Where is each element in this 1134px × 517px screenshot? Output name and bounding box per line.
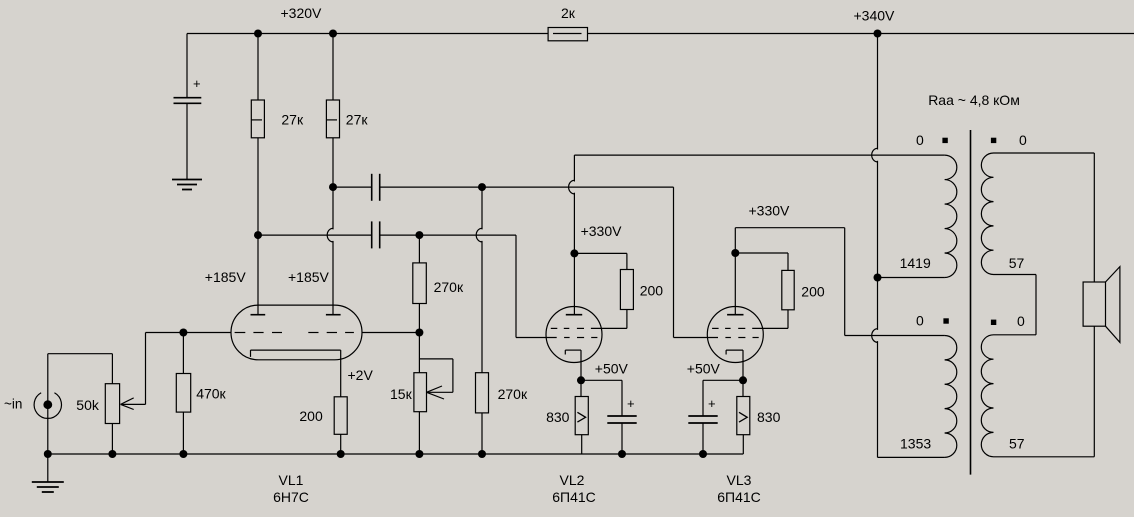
wire lower row left segment bbox=[258, 234, 372, 236]
junction dot rail VL3 cap bbox=[699, 450, 707, 458]
transformer T1 secondary winding 57 upper bbox=[981, 153, 993, 275]
svg-text:+340V: +340V bbox=[854, 8, 896, 24]
resistor 200 VL2 screen body bbox=[620, 270, 633, 310]
wire secondary series link bbox=[994, 274, 1037, 276]
junction dot rail 50k bbox=[108, 450, 116, 458]
wire hop 270k-leak over lower row bbox=[476, 228, 482, 242]
junction dot VL3 anode/screen node +330V bbox=[731, 249, 739, 257]
wire VL3 cathode cap link bbox=[703, 379, 743, 381]
svg-text:+330V: +330V bbox=[749, 203, 791, 219]
junction dot upper row / 270k grid leak bbox=[478, 183, 486, 191]
tube VL2 screen grid dashes bbox=[551, 327, 558, 329]
wire VL2 cap bottom lead bbox=[621, 423, 623, 454]
wire input down to rail bbox=[47, 405, 49, 454]
svg-text:+320V: +320V bbox=[281, 5, 323, 21]
transformer T1 primary winding 1353 bbox=[945, 336, 957, 458]
connector input jack circle bbox=[34, 393, 61, 419]
wire VL3 anode column bbox=[734, 228, 736, 315]
transformer phase dot secondary1 bbox=[992, 138, 996, 142]
wire primary2 bottom link bbox=[878, 456, 945, 458]
junction dot rail +340V bbox=[874, 30, 882, 38]
junction dot rail 270k-leak bbox=[478, 450, 486, 458]
wire input to pot top bbox=[48, 353, 113, 355]
transformer T1 primary winding 1419 bbox=[945, 155, 957, 277]
svg-text:~in: ~in bbox=[4, 397, 22, 412]
wire VL3 screen resistor top link bbox=[735, 252, 788, 254]
wire 15k wiper horizontal bbox=[427, 391, 453, 393]
tube VL2 control grid dashes bbox=[564, 337, 570, 339]
transformer phase dot primary2 bbox=[944, 319, 948, 323]
wire 470k bottom lead bbox=[182, 412, 184, 454]
potentiometer 50k wiper arrow bbox=[121, 398, 134, 405]
resistor 270k divider body bbox=[413, 263, 427, 304]
wire VL2 anode column above hop bbox=[573, 155, 575, 181]
tube VL1 grid-2 dashes bbox=[308, 332, 318, 334]
resistor 27k-2 body bbox=[326, 100, 339, 138]
tube VL3 control grid dashes bbox=[725, 337, 731, 339]
capacitor VL2 cathode plates bbox=[607, 415, 636, 417]
wire 15k bottom lead bbox=[418, 412, 420, 454]
wire 27k-1 top lead bbox=[257, 34, 259, 101]
svg-text:200: 200 bbox=[640, 283, 664, 299]
junction dot upper cap row left bbox=[329, 183, 337, 191]
wire 50k wiper vertical to grid bbox=[145, 333, 147, 405]
wire secondary2 bottom link bbox=[994, 456, 1095, 458]
wire input up lead bbox=[47, 354, 49, 405]
junction dot rail/27k-1 bbox=[254, 30, 262, 38]
svg-text:+50V: +50V bbox=[687, 361, 721, 377]
wire VL2 grid entry bbox=[516, 337, 557, 339]
capacitor coupling C2 plates bbox=[371, 221, 373, 248]
wire VL2 anode column below hop bbox=[573, 193, 575, 315]
wire 270k-leak bottom lead bbox=[481, 413, 483, 454]
wire hop anode2 over lower row bbox=[327, 228, 333, 242]
wire top +320V/+340V supply rail left segment bbox=[187, 33, 548, 35]
svg-text:0: 0 bbox=[1019, 132, 1027, 148]
speaker BA1 driver box bbox=[1083, 282, 1105, 326]
wire VL3 grid column vertical bbox=[673, 187, 675, 337]
wire VL3 cap bottom lead bbox=[702, 423, 704, 454]
junction dot VL1 grid right node B bbox=[415, 329, 423, 337]
junction dot VL1 grid left node A bbox=[179, 329, 187, 337]
svg-text:57: 57 bbox=[1009, 255, 1025, 271]
wire VL3 anode to transformer primary2 top bbox=[845, 335, 945, 337]
wire pot 50k top lead bbox=[111, 354, 113, 384]
svg-text:1419: 1419 bbox=[900, 255, 931, 271]
wire VL2 screen resistor top link bbox=[574, 252, 627, 254]
wire VL3 anode link top bbox=[735, 227, 844, 229]
wire top supply rail right segment bbox=[588, 33, 1134, 35]
tube VL1 envelope bbox=[231, 305, 362, 360]
wire 200 bottom lead bbox=[340, 434, 342, 454]
wire VL2 grid column vertical bbox=[515, 235, 517, 337]
resistor 470k grid leak top lead bbox=[182, 333, 184, 374]
wire 27k-2 top lead bbox=[332, 34, 334, 101]
wire center-tap column seg2 bbox=[877, 161, 879, 330]
wire primary1 bottom link bbox=[878, 277, 945, 279]
svg-text:VL3: VL3 bbox=[727, 472, 752, 488]
wire VL1 anode-1 plate bar bbox=[251, 314, 266, 316]
transformer T1 secondary winding 57 lower bbox=[981, 335, 993, 457]
resistor 200 VL3 screen body bbox=[782, 270, 794, 309]
resistor 200 VL1 cathode body bbox=[334, 397, 347, 435]
svg-text:6П41С: 6П41С bbox=[717, 489, 761, 505]
wire 270k-leak column upper bbox=[481, 187, 483, 229]
capacitor filter electrolytic plates bbox=[174, 97, 202, 99]
wire VL2 screen resistor bottom link bbox=[626, 310, 628, 329]
svg-text:470к: 470к bbox=[196, 386, 226, 402]
wire VL1 grid wire right solid bbox=[362, 332, 419, 334]
junction dot rail 15k bbox=[415, 450, 423, 458]
resistor 470k body bbox=[176, 374, 190, 413]
svg-text:VL2: VL2 bbox=[560, 472, 585, 488]
svg-text:57: 57 bbox=[1009, 436, 1025, 452]
wire VL1 anode-1 lead below node bbox=[257, 235, 259, 315]
junction dot VL2 cathode node +50V bbox=[577, 376, 585, 384]
wire 270k-div top lead bbox=[418, 235, 420, 263]
svg-text:27к: 27к bbox=[346, 112, 369, 128]
tube VL1 grid-1 dashes bbox=[235, 332, 246, 334]
potentiometer 15k body bbox=[414, 373, 427, 412]
wire 50k wiper horizontal bbox=[121, 403, 146, 405]
svg-text:+50V: +50V bbox=[595, 361, 629, 377]
tube VL1 cathode left tick bbox=[250, 350, 252, 357]
svg-text:6Н7С: 6Н7С bbox=[273, 489, 309, 505]
resistor 830 VL2 chevron bbox=[577, 412, 585, 422]
svg-text:+330V: +330V bbox=[581, 223, 623, 239]
resistor 830 VL2 body bbox=[575, 397, 588, 435]
wire grid node to 15k pot bbox=[418, 333, 420, 373]
tube VL3 anode plate bar bbox=[727, 314, 743, 316]
svg-text:VL1: VL1 bbox=[279, 472, 304, 488]
junction dot lower row / 270k divider bbox=[415, 231, 423, 239]
ground filter cap bbox=[172, 179, 202, 181]
wire VL2 anode to transformer primary top bbox=[574, 154, 944, 156]
svg-text:27к: 27к bbox=[281, 112, 304, 128]
capacitor VL3 cathode plates bbox=[688, 415, 717, 417]
svg-text:+2V: +2V bbox=[348, 367, 374, 383]
wire center-tap column seg1 bbox=[877, 34, 879, 150]
svg-text:0: 0 bbox=[916, 132, 924, 148]
wire hop CT over primary2 top bbox=[872, 329, 878, 343]
wire VL1 cathode lead bbox=[340, 350, 342, 397]
resistor 830 VL3 body bbox=[737, 397, 750, 435]
tube VL1 cathode bar bbox=[251, 349, 341, 351]
tube VL2 anode plate bar bbox=[566, 314, 582, 316]
wire VL3 cathode to 830 bbox=[742, 380, 744, 396]
wire upper row left segment bbox=[333, 186, 372, 188]
svg-text:+185V: +185V bbox=[205, 269, 247, 285]
wire 830 VL3 bottom lead bbox=[742, 435, 744, 454]
junction dot rail 200 bbox=[337, 450, 345, 458]
svg-text:830: 830 bbox=[546, 409, 570, 425]
transformer T1 core bbox=[970, 130, 972, 475]
wire secondary1 top link bbox=[994, 152, 1095, 154]
svg-text:+: + bbox=[708, 396, 716, 411]
wire 270k-leak column lower bbox=[481, 241, 483, 373]
wire filter cap top lead bbox=[186, 34, 188, 98]
wire VL3 grid entry bbox=[674, 337, 719, 339]
tube VL2 envelope circle bbox=[546, 307, 602, 363]
wire 830 VL2 bottom lead bbox=[581, 435, 583, 454]
wire 27k-1 bottom lead to node bbox=[257, 138, 259, 235]
wire 27k-2 column below hop bbox=[332, 241, 334, 315]
wire input ground lead bbox=[47, 454, 49, 482]
tube VL2 cathode bar bbox=[565, 349, 581, 351]
wire lower row right segment bbox=[380, 234, 516, 236]
svg-text:830: 830 bbox=[757, 409, 781, 425]
svg-text:+: + bbox=[193, 76, 201, 91]
wire upper row to VL3 grid column bbox=[380, 186, 674, 188]
wire VL1 anode-2 plate bar bbox=[326, 314, 341, 316]
wire 15k wiper link vertical bbox=[452, 359, 454, 392]
wire VL3 anode link vertical bbox=[844, 228, 846, 336]
wire 27k-2 bottom lead bbox=[332, 138, 334, 187]
junction dot rail VL2 cap bbox=[618, 450, 626, 458]
junction dot rail input bbox=[44, 450, 52, 458]
junction dot rail/27k-2 bbox=[329, 30, 337, 38]
wire pot 50k bottom lead bbox=[111, 424, 113, 455]
transformer phase dot primary1 bbox=[943, 138, 947, 142]
svg-text:270к: 270к bbox=[434, 279, 464, 295]
transformer phase dot secondary2 bbox=[992, 320, 996, 324]
svg-text:+185V: +185V bbox=[288, 269, 330, 285]
wire bottom ground rail bbox=[48, 453, 744, 455]
tube VL3 screen grid dashes bbox=[712, 327, 719, 329]
wire VL1 anode-2 upper lead bbox=[332, 187, 334, 229]
wire filter cap bottom lead bbox=[186, 103, 188, 179]
svg-text:50k: 50k bbox=[76, 397, 100, 413]
junction dot rail 470k bbox=[179, 450, 187, 458]
svg-text:1353: 1353 bbox=[900, 436, 931, 452]
capacitor coupling C1 plates bbox=[371, 174, 373, 201]
wire 270k-div bottom lead bbox=[418, 304, 420, 333]
wire 15k wiper link top bbox=[419, 358, 453, 360]
potentiometer 15k wiper arrow bbox=[427, 386, 443, 392]
junction dot center tap bbox=[874, 274, 882, 282]
connector input center pin bbox=[43, 400, 52, 409]
svg-text:+: + bbox=[627, 396, 635, 411]
svg-text:6П41С: 6П41С bbox=[552, 489, 596, 505]
wire center-tap column seg3 bbox=[877, 341, 879, 457]
svg-text:0: 0 bbox=[1017, 313, 1025, 329]
wire VL3 screen resistor bottom link bbox=[787, 310, 789, 329]
wire hop VL2 anode over upper cap row bbox=[569, 180, 575, 194]
junction dot lower cap row left bbox=[254, 231, 262, 239]
potentiometer 50k body bbox=[105, 384, 119, 424]
resistor 27k-1 tick bbox=[251, 119, 262, 121]
wire VL2 cathode to 830 bbox=[580, 380, 582, 396]
wire VL2 cathode cap link bbox=[581, 379, 622, 381]
resistor 2k body bbox=[548, 28, 587, 41]
svg-text:200: 200 bbox=[299, 408, 323, 424]
junction dot VL3 cathode node +50V bbox=[739, 376, 747, 384]
junction dot VL2 anode/screen node +330V bbox=[570, 249, 578, 257]
wire VL2 cathode lead bbox=[580, 350, 582, 380]
wire hop CT over primary1 top bbox=[872, 148, 878, 162]
svg-text:2к: 2к bbox=[561, 5, 576, 21]
svg-text:270к: 270к bbox=[498, 386, 528, 402]
svg-text:0: 0 bbox=[916, 313, 924, 329]
tube VL3 cathode tick bbox=[725, 350, 727, 354]
svg-text:200: 200 bbox=[801, 284, 825, 300]
resistor 2k inner tick bbox=[553, 33, 582, 35]
svg-text:Raa ~ 4,8 кОм: Raa ~ 4,8 кОм bbox=[928, 92, 1020, 108]
resistor 830 VL3 chevron bbox=[739, 412, 747, 422]
resistor 27k-2 tick bbox=[326, 119, 337, 121]
resistor 27k-1 body bbox=[251, 100, 264, 138]
tube VL3 envelope circle bbox=[707, 307, 763, 363]
svg-text:15к: 15к bbox=[390, 386, 413, 402]
ground input bbox=[32, 481, 64, 483]
tube VL3 cathode bar bbox=[726, 349, 743, 351]
wire speaker feed bottom bbox=[1093, 326, 1095, 457]
wire speaker feed top bbox=[1093, 153, 1095, 282]
wire VL3 cathode lead bbox=[742, 350, 744, 380]
resistor 270k grid leak body bbox=[476, 373, 489, 413]
speaker BA1 cone bbox=[1106, 267, 1120, 343]
wire VL1 grid wire left solid bbox=[146, 332, 232, 334]
tube VL2 cathode tick bbox=[564, 350, 566, 354]
